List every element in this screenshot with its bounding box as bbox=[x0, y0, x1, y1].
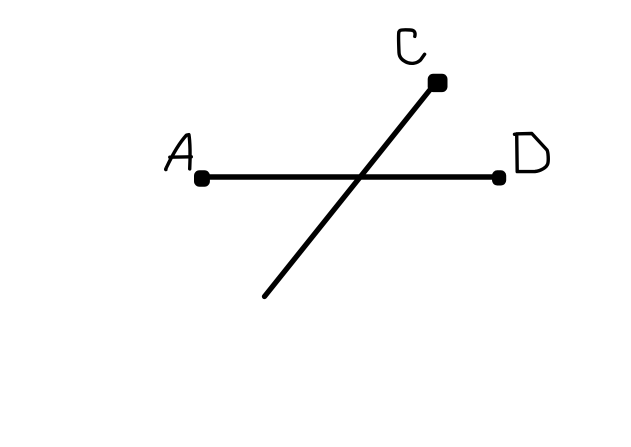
wire: segment AD (horizontal line) bbox=[202, 174, 499, 180]
node C: square endpoint bbox=[428, 74, 448, 92]
label C (handwritten) bbox=[399, 30, 425, 64]
label A (handwritten) bbox=[166, 135, 192, 170]
label D (handwritten) bbox=[515, 134, 549, 172]
wire: diagonal line through C bbox=[265, 86, 434, 297]
node A: endpoint dot bbox=[194, 170, 210, 186]
node D: endpoint dot bbox=[492, 170, 506, 185]
